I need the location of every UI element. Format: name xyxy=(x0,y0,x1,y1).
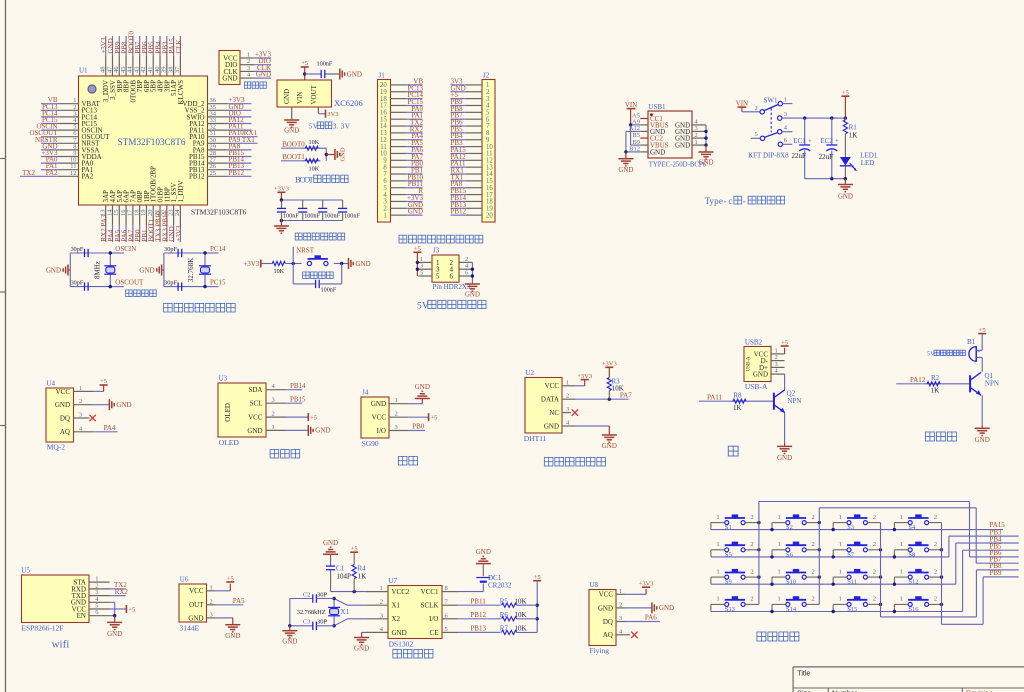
power 3V3 at XC6206 VOUT xyxy=(326,110,339,118)
download port pin 2 wire net DIO xyxy=(240,57,271,65)
svg-text:2: 2 xyxy=(812,541,815,548)
button S-reset xyxy=(307,255,328,265)
USB1 right pin 1 xyxy=(692,139,706,146)
U7 pin 5 wire net PB13 with resistor R7 10K xyxy=(442,625,537,635)
J2 pin 20 wire net PB12 xyxy=(451,208,494,220)
svg-text:1: 1 xyxy=(839,514,842,521)
button S13 xyxy=(716,596,753,613)
svg-text:DATA: DATA xyxy=(541,396,559,404)
U1 bottom pin 22 PB11 / wire net RX3 PB11 xyxy=(161,187,172,242)
U5 pin 5 wire to +5 xyxy=(89,603,126,610)
svg-text:USB-A: USB-A xyxy=(745,382,768,391)
J2 pin 5 wire net PB8 xyxy=(451,105,491,117)
U1 left pin 4 PC15 / wire net PC15 xyxy=(41,116,98,128)
U1 right pin 27 PB14 / wire net PB14 xyxy=(189,156,252,168)
wire crystal left rail xyxy=(164,253,219,287)
USB2 pin 3 stub xyxy=(771,361,785,368)
capacitor C-reset 100nF branch xyxy=(293,264,342,294)
U1 bottom pin 14 PA4 / wire net PA4 xyxy=(106,190,117,242)
svg-text:GND: GND xyxy=(598,604,613,612)
svg-text:3: 3 xyxy=(566,406,569,413)
ground at Q1 xyxy=(975,425,990,444)
svg-text:37: 37 xyxy=(174,66,181,73)
wire S8 pin2 to column xyxy=(929,549,942,551)
svg-text:U2: U2 xyxy=(525,369,534,377)
svg-text:+3V3: +3V3 xyxy=(175,225,183,242)
USB1 left pin A9 xyxy=(632,119,648,126)
svg-text:GND: GND xyxy=(347,70,362,78)
J1 pin 6 wire net PB10 xyxy=(383,173,423,185)
svg-text:GND: GND xyxy=(838,193,853,201)
op-amp U1 body STM32F103C8T6 xyxy=(79,67,247,217)
power +5 at USB2 xyxy=(781,339,789,346)
svg-text:2: 2 xyxy=(934,596,937,603)
svg-text:GND: GND xyxy=(777,454,792,462)
svg-text:+5: +5 xyxy=(979,327,986,334)
U6 pin 2 wire net PA5 xyxy=(207,597,246,605)
wire S16 pin2 to column xyxy=(929,603,942,605)
svg-text:GND: GND xyxy=(698,159,713,167)
node S11 pin2 junction xyxy=(879,575,882,578)
svg-text:GND: GND xyxy=(975,436,990,444)
svg-text:+3V3: +3V3 xyxy=(602,361,617,368)
capacitor 100nF at XC6206 xyxy=(317,61,333,79)
svg-text:10K: 10K xyxy=(515,625,527,633)
wire S2 pin1 to row xyxy=(772,523,786,530)
wire keyboard row 2 line xyxy=(711,555,949,558)
svg-text:+3V3: +3V3 xyxy=(243,260,260,268)
caption 5V外接备用电源 xyxy=(417,300,486,311)
svg-text:1: 1 xyxy=(784,96,787,103)
U5 pin 1 stub xyxy=(89,576,110,583)
net label PB4 wire xyxy=(956,535,1019,543)
capacitor C2 30P xyxy=(290,591,334,602)
wire column1 vertical and top route to PB6 xyxy=(759,502,970,605)
svg-text:CE: CE xyxy=(430,629,439,637)
svg-text:OUT: OUT xyxy=(189,601,204,609)
SW1 lever 5-4 xyxy=(765,133,778,138)
J1 pin 14 wire net TX2 xyxy=(380,119,423,131)
svg-text:U8: U8 xyxy=(589,581,598,589)
wire keyboard row 3 line xyxy=(711,583,956,586)
svg-text:GND: GND xyxy=(415,383,430,391)
sheet border frame line xyxy=(0,0,6,692)
U1 top pin 41 PB5 / wire net PB5 xyxy=(147,36,158,92)
J2 pin 11 wire net PA15 xyxy=(451,146,493,158)
connector USB1 TYPEC-250D-BCP6 body xyxy=(648,103,707,169)
svg-text:2: 2 xyxy=(873,568,876,575)
display U3 OLED body xyxy=(218,375,266,448)
U1 left pin 12 PA2 / wire net PA2 xyxy=(20,169,94,181)
wire S11 pin1 to row xyxy=(833,577,847,584)
svg-text:1: 1 xyxy=(716,596,719,603)
svg-text:R5: R5 xyxy=(500,597,509,605)
svg-text:B1: B1 xyxy=(967,338,976,346)
J3 left pin 1 wire xyxy=(418,256,432,263)
capacitor C-filter2 100nF xyxy=(298,200,320,221)
sensor U4 MQ-2 body xyxy=(46,380,74,452)
J1 pin 2 wire net GND xyxy=(383,201,423,213)
node S7 pin2 junction xyxy=(879,548,882,551)
capacitor C3 30P xyxy=(290,619,334,630)
J2 pin 8 wire net PB5 xyxy=(451,125,491,137)
U1 right pin 29 PA8 / wire net PA8 xyxy=(193,142,252,154)
button S10 xyxy=(778,568,815,585)
caption 蜂鸣器 xyxy=(925,432,956,441)
U8 pin 4 no-connect xyxy=(616,628,638,638)
svg-text:PB9: PB9 xyxy=(990,569,1003,577)
svg-text:DQ: DQ xyxy=(603,618,613,626)
power +3V3 at reset xyxy=(243,260,272,268)
capacitor EC2 22uF xyxy=(819,118,840,179)
svg-text:3: 3 xyxy=(380,612,383,619)
svg-text:2: 2 xyxy=(812,568,815,575)
svg-text:100nF: 100nF xyxy=(344,213,360,220)
svg-text:2: 2 xyxy=(272,411,275,418)
svg-text:2: 2 xyxy=(873,541,876,548)
U4 pin 4 wire net PA4 xyxy=(74,424,118,432)
connector J3 Pin HDR2X3 body xyxy=(432,247,471,292)
svg-text:1: 1 xyxy=(716,514,719,521)
J4 pin 2 wire to +5 xyxy=(389,411,429,418)
svg-text:10K: 10K xyxy=(309,139,320,146)
J1 pin 1 wire net GND xyxy=(383,208,423,220)
ground at U2 xyxy=(602,435,617,450)
wire keyboard row 1 line xyxy=(711,528,1003,531)
svg-text:GND: GND xyxy=(55,401,70,409)
svg-text:VCC: VCC xyxy=(372,414,387,422)
svg-text:1: 1 xyxy=(839,541,842,548)
U1 left pin 9 VDDA / wire net +3V3 xyxy=(41,149,102,161)
net label PA15 wire xyxy=(990,521,1006,529)
USB1 left pin A5 xyxy=(632,112,648,119)
J1 pin 18 wire net PC14 xyxy=(380,91,423,103)
caption 5V降压3.3V xyxy=(309,122,351,131)
svg-text:GND: GND xyxy=(284,127,299,135)
title block xyxy=(793,667,1024,692)
net label PC14 xyxy=(210,245,226,253)
J1 pin 12 wire net PA4 xyxy=(380,132,423,144)
svg-text:2: 2 xyxy=(934,568,937,575)
svg-text:5: 5 xyxy=(445,626,448,633)
sensor U2 DHT11 body xyxy=(524,369,562,443)
net label PB9 wire xyxy=(983,569,1019,577)
U8 pin 2 wire to GND xyxy=(616,601,652,608)
svg-text:PB12: PB12 xyxy=(229,169,245,177)
svg-text:J1: J1 xyxy=(379,72,386,80)
svg-text:3: 3 xyxy=(79,412,82,419)
svg-text:GND: GND xyxy=(247,427,262,435)
svg-text:30pF: 30pF xyxy=(71,279,84,286)
U1 bottom pin 19 PB1 / wire net PB1 xyxy=(140,190,151,242)
U8 pin 1 wire to +3V3 xyxy=(616,588,646,595)
crystal 32.768K xyxy=(187,253,211,287)
J2 pin 16 wire net PA8 xyxy=(451,180,494,192)
J3 right pin 6 wire xyxy=(459,270,472,277)
node crystal junctions 32.768K xyxy=(203,251,206,288)
svg-text:2: 2 xyxy=(210,598,213,605)
wire VIN to VBUS pins xyxy=(629,123,640,145)
svg-text:AQ: AQ xyxy=(603,631,613,639)
connector J2 header body xyxy=(482,72,495,223)
resistor R2 1K xyxy=(927,374,940,394)
power +5 at J3 xyxy=(413,246,421,277)
button S14 xyxy=(778,596,815,613)
button S6 xyxy=(778,541,815,558)
svg-text:GND: GND xyxy=(282,638,297,646)
U1 right pin 34 SWIO / wire net DIO xyxy=(187,109,252,121)
power +5 at LED branch xyxy=(841,89,849,118)
wire res to button xyxy=(285,263,301,265)
svg-text:1: 1 xyxy=(79,385,82,392)
svg-text:5: 5 xyxy=(436,273,440,281)
U5 pin 3 wire net RX2 xyxy=(89,588,128,596)
svg-text:X2: X2 xyxy=(392,615,401,623)
wire S6 pin2 to column xyxy=(806,549,819,551)
wire S2 pin2 to column xyxy=(806,522,819,524)
svg-text:2: 2 xyxy=(873,596,876,603)
svg-text:3: 3 xyxy=(395,424,398,431)
svg-text:+5: +5 xyxy=(430,415,437,422)
svg-text:32.768kHZ: 32.768kHZ xyxy=(297,609,326,616)
svg-text:VIN: VIN xyxy=(625,101,637,109)
svg-text:3: 3 xyxy=(210,611,213,618)
U1 top pin 38 PA15 / wire net PA15 xyxy=(167,36,178,96)
U7 pin 2 wire X1 xyxy=(334,599,388,606)
svg-text:1K: 1K xyxy=(733,404,742,412)
download port pin 4 wire net GND xyxy=(240,71,271,79)
svg-text:U3: U3 xyxy=(219,375,228,383)
svg-text:X1: X1 xyxy=(341,608,350,616)
U1 top pin 43 PB7 / wire net PB7 xyxy=(133,36,144,92)
U7 pin 6 wire net PB12 with resistor R6 10K xyxy=(442,611,537,621)
svg-text:2: 2 xyxy=(750,514,753,521)
U2 pin 1 wire to +3V3 xyxy=(562,379,585,386)
svg-text:+3V3: +3V3 xyxy=(577,373,592,380)
node boot junction xyxy=(325,153,335,156)
svg-text:OLED: OLED xyxy=(219,438,240,447)
J3 right pin 4 wire xyxy=(459,263,472,270)
connector J1 header body xyxy=(378,72,391,223)
svg-text:LED: LED xyxy=(861,159,875,167)
capacitor 30pF top 8MHz xyxy=(71,246,89,257)
capacitor C1 104P xyxy=(326,565,351,592)
svg-text:2: 2 xyxy=(934,514,937,521)
svg-text:VCC: VCC xyxy=(248,414,263,422)
J3 right pin 2 wire xyxy=(459,256,472,263)
U1 right pin 33 PA12 / wire net PA12 xyxy=(189,116,251,128)
crystal X1 32.768kHZ circuit xyxy=(297,597,350,628)
svg-text:VCC1: VCC1 xyxy=(421,588,439,596)
J2 pin 10 wire net PB3 xyxy=(451,139,494,151)
wire USB1 right gnd bus xyxy=(704,125,707,147)
svg-text:R1: R1 xyxy=(849,123,858,131)
svg-text:2: 2 xyxy=(380,599,383,606)
resistor R3 10K pullup xyxy=(607,377,624,399)
caption 芯片滤波电容 xyxy=(295,233,344,240)
capacitor C-filter1 100nF xyxy=(277,200,299,221)
SW1 pin3 wire to bus xyxy=(782,111,847,120)
svg-text:1: 1 xyxy=(272,424,275,431)
svg-text:KFT DIP-8X8: KFT DIP-8X8 xyxy=(748,152,789,160)
svg-text:PA4: PA4 xyxy=(104,424,116,432)
svg-text:STM32F103C8T6: STM32F103C8T6 xyxy=(191,208,247,217)
resistor R1 1K xyxy=(843,118,857,157)
U1 right pin 31 PA10 / wire net PA10RX1 xyxy=(189,129,257,141)
node VIN junction xyxy=(303,72,306,75)
caption 复位电路 xyxy=(303,272,334,279)
svg-text:1: 1 xyxy=(778,596,781,603)
power +5 at buzzer xyxy=(978,327,986,351)
svg-text:CR2032: CR2032 xyxy=(488,582,512,590)
wire S4 pin1 to row xyxy=(894,523,908,530)
download port pin 1 wire net +3V3 xyxy=(240,51,271,59)
wire boot0 res to gnd node xyxy=(321,148,327,161)
svg-text:Title: Title xyxy=(797,670,810,677)
resistor R4 1K xyxy=(352,565,366,592)
J1 pin 8 wire net PB0 xyxy=(383,160,423,172)
svg-text:1: 1 xyxy=(383,212,386,219)
wire J3 right vertical xyxy=(471,262,474,282)
transistor Q2 NPN xyxy=(774,389,802,442)
wire buzzer to Q1 collector xyxy=(981,357,983,371)
net PA12 wire xyxy=(896,376,970,384)
U7 pin 8 wire to DC1 xyxy=(442,584,483,593)
power +5 at R4 xyxy=(350,546,358,565)
U1 right pin 35 VSS_2 / wire net GND xyxy=(185,103,252,115)
svg-text:100nF: 100nF xyxy=(317,61,333,68)
wire S1 pin1 to row xyxy=(711,523,725,530)
USB2 pin 2 stub xyxy=(771,354,785,361)
svg-text:GND: GND xyxy=(544,422,559,430)
ground above DC1 xyxy=(476,548,491,570)
wire X1 left rail xyxy=(288,599,291,628)
U1 left pin 1 VBAT / wire net VB xyxy=(41,96,101,108)
power +3V3 at U2 xyxy=(577,373,592,386)
button S12 xyxy=(900,568,937,585)
U1 right pin 30 PA9 / wire net PA9 TX1 xyxy=(193,136,258,148)
U1 bottom pin 17 PA7 / wire net PA7 xyxy=(127,190,138,242)
J2 pin 3 wire net +5 xyxy=(451,91,491,103)
svg-text:I/O: I/O xyxy=(429,615,438,623)
svg-text:30P: 30P xyxy=(317,619,328,626)
svg-text:GND: GND xyxy=(650,148,665,156)
J2 pin 18 wire net PB14 xyxy=(451,194,494,206)
J2 pin 17 wire net PB15 xyxy=(451,187,494,199)
regulator U? XC6206 body xyxy=(277,80,363,108)
svg-text:2: 2 xyxy=(750,568,753,575)
svg-text:PA7: PA7 xyxy=(620,391,632,399)
ground at USB1 right xyxy=(698,145,713,166)
svg-text:U7: U7 xyxy=(388,577,397,585)
wire VIN to cap xyxy=(305,73,322,75)
svg-text:DQ: DQ xyxy=(60,414,70,422)
svg-text:PA2: PA2 xyxy=(82,173,94,181)
svg-text:OSCOUT: OSCOUT xyxy=(115,279,144,287)
svg-text:3144E: 3144E xyxy=(180,624,200,633)
svg-text:-: - xyxy=(743,196,746,206)
svg-text:24: 24 xyxy=(174,209,181,216)
wire S15 pin2 to column xyxy=(867,603,880,605)
node crystal junctions 8MHz xyxy=(109,251,112,288)
U1 top pin 45 PB8 / wire net PB8 xyxy=(120,36,131,92)
wire S6 pin1 to row xyxy=(772,550,786,557)
caption 下载口 xyxy=(244,82,266,88)
wire row3 riser to PB4 xyxy=(955,543,957,584)
button S4 xyxy=(900,514,937,531)
svg-text:J2: J2 xyxy=(483,72,490,80)
wire S13 pin2 to column xyxy=(745,603,759,605)
wire keyboard row 4 line xyxy=(711,610,963,613)
wire S3 pin1 to row xyxy=(833,523,847,530)
U1 bottom pin 15 PA5 / wire net PA5 xyxy=(113,190,124,242)
svg-text:+5: +5 xyxy=(842,89,849,96)
svg-text:6: 6 xyxy=(450,273,454,281)
svg-text:VCC: VCC xyxy=(545,382,560,390)
svg-text:5: 5 xyxy=(420,270,423,277)
wire S12 pin1 to row xyxy=(894,577,908,584)
net BOOT1 wire xyxy=(281,153,321,161)
U8 pin 3 wire net PA6 xyxy=(616,614,660,622)
capacitor C-filter4 100nF xyxy=(338,200,360,221)
svg-text:VCC: VCC xyxy=(599,591,614,599)
svg-text:10K: 10K xyxy=(273,268,284,275)
ground at LED rail xyxy=(838,179,853,201)
svg-text:2: 2 xyxy=(566,393,569,400)
button S16 xyxy=(900,596,937,613)
svg-text:+: + xyxy=(835,139,839,145)
svg-text:100nF: 100nF xyxy=(283,213,299,220)
ground above C1 xyxy=(323,539,338,566)
svg-text:10K: 10K xyxy=(309,166,320,173)
SW1 pole3 circle xyxy=(778,116,782,120)
node S1 pin2 junction xyxy=(757,521,760,524)
button S7 xyxy=(839,541,876,558)
U1 right pin 32 PA11 / wire net PA11 xyxy=(189,123,251,135)
node J3 left junctions xyxy=(416,261,419,271)
ground at filter caps xyxy=(274,221,289,234)
U1 top pin 46 PB9 / wire net PB9 xyxy=(113,36,124,92)
capacitor 30pF bottom 32.768K xyxy=(164,279,182,290)
svg-text:Fiying: Fiying xyxy=(589,646,609,655)
svg-text:1: 1 xyxy=(566,379,569,386)
svg-text:1: 1 xyxy=(900,568,903,575)
J1 pin 11 wire net PA5 xyxy=(380,139,423,151)
J2 pin 13 wire net PA11 xyxy=(451,160,494,172)
svg-text:10K: 10K xyxy=(515,597,527,605)
svg-text:100nF: 100nF xyxy=(324,213,340,220)
svg-text:PC15: PC15 xyxy=(210,279,226,287)
net label PB8 wire xyxy=(976,562,1018,570)
caption BOOT设置电路 xyxy=(295,175,348,185)
svg-text:1K: 1K xyxy=(849,131,858,139)
U1 left pin 8 VSSA / wire net GND xyxy=(41,142,99,154)
J1 pin 16 wire net PA0 xyxy=(380,105,423,117)
svg-text:OLED: OLED xyxy=(224,403,232,422)
U2 pin 2 wire net PA7 xyxy=(562,391,632,401)
svg-text:VIN: VIN xyxy=(296,92,304,104)
capacitor 30pF top 32.768K xyxy=(164,246,182,257)
ground at crystal 32.768K xyxy=(139,265,163,276)
svg-text:C3: C3 xyxy=(303,619,311,626)
svg-text:3: 3 xyxy=(784,111,787,118)
svg-text:PB12: PB12 xyxy=(451,208,467,216)
wire S1 pin2 to column xyxy=(745,522,759,524)
connector P-download 下载口 body xyxy=(219,51,240,85)
svg-text:1: 1 xyxy=(778,541,781,548)
U1 left pin 3 PC14 / wire net PC14 xyxy=(41,109,98,121)
svg-text:2: 2 xyxy=(755,105,758,112)
